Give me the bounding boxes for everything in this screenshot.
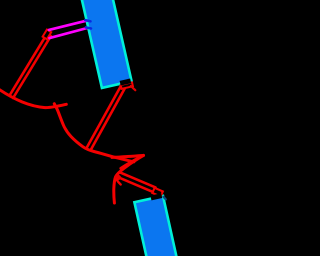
trail arc P2 (long middle trail) bbox=[54, 104, 134, 162]
red joint box at plank 2 top (aligned with rod C) bbox=[152, 188, 162, 197]
rod C (hook to plank 2) edge 1 bbox=[120, 172, 156, 187]
plank 2 (bottom blue plank) bbox=[134, 196, 183, 256]
red joint nub at plank 1 box right end bbox=[131, 86, 136, 90]
magenta joint line lower bbox=[50, 28, 88, 38]
rod A edge 2 bbox=[9, 34, 47, 96]
trail arc P1 (upper-left trail ending in nub) bbox=[0, 88, 66, 108]
red joint box at plank 1 bottom (aligned with rod B) bbox=[121, 82, 133, 89]
black notch on plank 1 bottom edge bbox=[120, 78, 132, 85]
elbow joint box (rod A top) bbox=[43, 30, 52, 40]
blue joint stub lower (magenta line continuation into plank 1) bbox=[86, 27, 91, 28]
rod C edge 2 bbox=[116, 176, 153, 192]
trail arc P4a (descent from cusp tip, hook to lower end) bbox=[114, 155, 144, 203]
dark mark inside plank 2 top-right corner bbox=[163, 197, 165, 200]
black notch on plank 2 top edge bbox=[150, 193, 162, 200]
rod B (plank 1 to trail P2) edge 1 bbox=[91, 88, 125, 150]
trail wiggle at hook bend bbox=[117, 180, 121, 185]
rod B edge 2 bbox=[87, 86, 121, 148]
plank 1 (top blue plank) bbox=[81, 0, 132, 88]
blue joint stub upper (magenta line continuation into plank 1) bbox=[85, 20, 90, 21]
trail arc P3 (approach stroke to cusp tip) bbox=[112, 155, 144, 157]
red knot at hook bend / rod C anchor bbox=[114, 173, 122, 181]
trail arc P4b (second cusp branch) bbox=[121, 156, 143, 168]
magenta joint line upper bbox=[49, 21, 87, 30]
rod A (elbow to trail P1) edge 1 bbox=[13, 36, 51, 98]
